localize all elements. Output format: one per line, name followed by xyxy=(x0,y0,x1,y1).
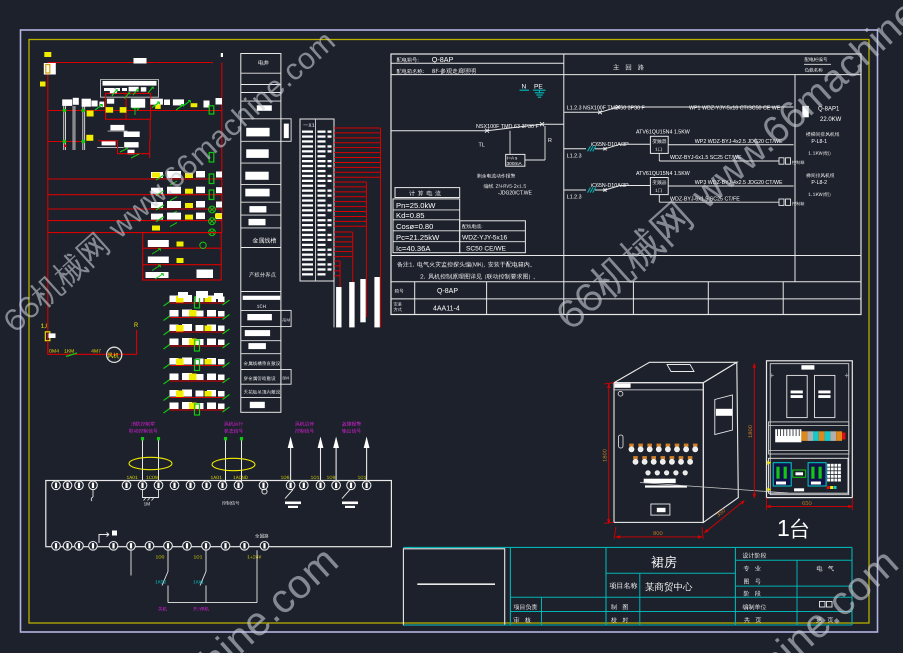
breaker unit B front xyxy=(808,463,826,486)
calc current box xyxy=(395,188,460,198)
cabinet handle slot xyxy=(619,435,624,448)
svg-text:TL: TL xyxy=(479,143,485,149)
start stop sub-circuit wires xyxy=(130,550,132,575)
relay box divider xyxy=(125,93,127,119)
svg-text:L1.2.3: L1.2.3 xyxy=(567,153,582,159)
terminal comb xyxy=(775,429,801,442)
riser table texts xyxy=(258,60,268,65)
legend line sample xyxy=(417,583,495,585)
signal label group 3 magenta xyxy=(295,421,314,426)
svg-text:N: N xyxy=(522,84,527,91)
fan labels yellow xyxy=(49,349,59,353)
front view outer xyxy=(767,361,853,498)
wire top horizontal xyxy=(48,62,213,64)
relay box K1 red outline xyxy=(106,93,151,119)
output labels yellow xyxy=(281,476,289,479)
notes text xyxy=(397,261,532,267)
front view inner xyxy=(770,364,849,495)
distribution sub-panel red box xyxy=(143,233,222,280)
node dot red xyxy=(64,145,66,147)
relay contact marks xyxy=(110,88,117,93)
sub-panel inner rows xyxy=(143,247,222,249)
rows 179-232 components xyxy=(151,172,163,178)
dimension left 1800 xyxy=(608,384,610,523)
motor circles green xyxy=(209,206,216,213)
cabinet indicator lamps xyxy=(629,444,634,447)
cabinet side recess xyxy=(715,395,733,435)
svg-text:SC50 CE/WE: SC50 CE/WE xyxy=(466,246,507,253)
fan circuit aux box xyxy=(49,333,56,338)
output arrows xyxy=(290,448,292,484)
cabinet front label xyxy=(615,384,631,388)
cascade cable labels rotated xyxy=(336,287,341,327)
colored blocks row xyxy=(801,431,807,441)
svg-text:300mA: 300mA xyxy=(507,161,523,167)
cabinet lock xyxy=(618,391,623,396)
svg-text:R: R xyxy=(548,138,552,144)
front view corner marks xyxy=(770,373,774,377)
contact labels cyan xyxy=(155,580,166,583)
riser shaft table xyxy=(241,54,281,413)
svg-text:4AA11-4: 4AA11-4 xyxy=(433,306,460,313)
PLC mid text xyxy=(222,501,239,505)
wire fan circuit xyxy=(48,330,137,354)
PLC right label xyxy=(255,534,269,538)
watermark 4 xyxy=(444,539,903,653)
leader line to front view xyxy=(640,483,788,494)
svg-text:P-L8-1: P-L8-1 xyxy=(811,139,827,145)
svg-text:P-L8-2: P-L8-2 xyxy=(811,180,827,186)
bottom table texts xyxy=(395,289,404,293)
wire drop from relay xyxy=(149,119,151,141)
title block bottom line xyxy=(403,624,852,626)
watermark 1 xyxy=(0,24,342,338)
title block verticals xyxy=(509,547,511,625)
cabinet 3D top face xyxy=(614,362,737,382)
terminal labels yellow group2 xyxy=(211,476,222,479)
cabinet nameplate xyxy=(651,504,670,515)
dimension diagonal 350 xyxy=(705,501,744,533)
yellow wedge marks xyxy=(767,461,771,492)
svg-text:Kd=0.85: Kd=0.85 xyxy=(396,211,425,220)
front view top label xyxy=(801,365,814,369)
main table header lines xyxy=(391,62,564,64)
front view module right xyxy=(815,375,835,417)
svg-text:Ic=40.36A: Ic=40.36A xyxy=(396,244,431,253)
yellow squares rows xyxy=(152,173,160,178)
fuse F1 white xyxy=(44,63,56,75)
dimension 650 front view xyxy=(767,505,853,507)
feeder WP3 with VFD U2 xyxy=(564,171,835,206)
start stop labels magenta xyxy=(158,607,167,612)
CT ellipse group1 xyxy=(129,457,172,469)
header texts xyxy=(397,57,419,62)
sub-panel components xyxy=(148,240,169,247)
PLC U bracket xyxy=(143,490,159,498)
main table outer box xyxy=(391,54,861,315)
riser side cells xyxy=(281,119,291,142)
front view mid band xyxy=(769,422,849,454)
svg-text:L1.2.3: L1.2.3 xyxy=(567,195,582,201)
dimension right 1800 xyxy=(753,364,755,498)
mini color squares xyxy=(827,486,830,489)
watermark 3 xyxy=(0,537,347,653)
green switch fan xyxy=(66,353,77,357)
fuse F1 yellow element xyxy=(46,65,50,74)
main table right column divider xyxy=(794,75,796,282)
svg-text:I=A s: I=A s xyxy=(507,156,518,161)
PLC circle symbol xyxy=(262,489,267,494)
breaker unit A front xyxy=(773,463,791,486)
dimension bottom 800 xyxy=(616,536,702,538)
spare boxes above rows xyxy=(178,292,188,298)
cabinet 3D front face xyxy=(614,383,703,523)
legend box xyxy=(403,549,504,625)
contactor box red outline xyxy=(98,141,150,158)
svg-text:1: 1 xyxy=(777,515,790,541)
label box on top wire xyxy=(134,58,147,64)
front small label xyxy=(794,488,804,491)
cabinet 3D side face xyxy=(703,362,738,522)
wire cascade tiers red xyxy=(334,127,381,129)
green slashes lower xyxy=(120,148,128,152)
meter title bar xyxy=(103,81,157,86)
fuse in fan circuit xyxy=(45,332,50,341)
component boxes mid area xyxy=(110,125,124,130)
wire row horizontal xyxy=(48,208,222,210)
feeder WP2 with VFD U1 xyxy=(564,130,840,165)
level switch symbols xyxy=(285,490,293,499)
RCD labels xyxy=(477,173,515,178)
label 1J xyxy=(41,324,47,329)
cable spec box xyxy=(460,221,526,253)
bottom table lines xyxy=(391,281,861,283)
wire row horizontal xyxy=(48,178,222,180)
svg-text:-JDG20/CT.WE: -JDG20/CT.WE xyxy=(498,191,533,197)
wire CT loop bottom xyxy=(48,141,83,143)
signal label group 1 magenta xyxy=(131,421,155,426)
terminal labels yellow group1 xyxy=(127,476,138,479)
sensor posts group1 xyxy=(141,437,144,440)
component boxes main row xyxy=(62,99,72,106)
svg-text:Pn=25.0kW: Pn=25.0kW xyxy=(396,201,436,210)
svg-text:ATV61QU15N4 1.5KW: ATV61QU15N4 1.5KW xyxy=(636,171,690,177)
bus top tick xyxy=(221,53,223,57)
wire row horizontal xyxy=(48,220,222,222)
fuse green rows xyxy=(209,153,214,163)
branch breaker rows xyxy=(164,295,230,308)
RCD box 300mA xyxy=(506,154,525,166)
terminal J1 yellow xyxy=(44,52,51,57)
CT conductors xyxy=(63,106,65,150)
signal label group 2 magenta xyxy=(224,422,243,427)
wire row horizontal xyxy=(48,194,222,196)
cabinet front seam xyxy=(614,389,703,391)
wire to RCD xyxy=(509,131,511,155)
PLC pin symbol xyxy=(92,490,94,497)
svg-text:ATV61QU15N4 1.5KW: ATV61QU15N4 1.5KW xyxy=(636,130,690,136)
meter sub-box xyxy=(101,80,159,98)
green switch arrows main row xyxy=(95,105,103,111)
terminal matrix front xyxy=(827,464,841,482)
svg-text:Cosø=0.80: Cosø=0.80 xyxy=(396,222,433,231)
svg-text:Q-8AP: Q-8AP xyxy=(432,55,454,64)
PLC bottom labels yellow xyxy=(156,555,164,558)
yellow terminal mid xyxy=(86,135,93,141)
strip right edge extension xyxy=(333,281,335,327)
wire row horizontal xyxy=(48,232,222,234)
svg-text:PE: PE xyxy=(534,84,543,91)
svg-text:Q-8AP: Q-8AP xyxy=(437,288,458,295)
green connector front xyxy=(793,470,806,477)
PLC top terminals xyxy=(52,481,61,490)
ground symbol PE xyxy=(539,90,541,93)
watermark 2 xyxy=(550,0,903,337)
svg-text:WDZ-YJY-5x16: WDZ-YJY-5x16 xyxy=(462,235,508,242)
node dots green xyxy=(63,109,67,113)
signal label group 4 magenta xyxy=(342,422,361,427)
PLC box outline xyxy=(46,481,392,547)
feeder WP1 xyxy=(564,105,842,123)
title texts xyxy=(651,556,676,569)
yellow marks main row xyxy=(87,111,94,117)
fan motor circle xyxy=(107,347,122,362)
cabinet top hatch xyxy=(667,365,694,372)
front view module left xyxy=(787,375,807,417)
main table section divider xyxy=(563,54,565,315)
wire main row horizontal xyxy=(48,110,222,112)
svg-text:Pc=21.25kW: Pc=21.25kW xyxy=(396,233,440,242)
terminal strip X1 xyxy=(300,119,334,281)
fuse green main row xyxy=(209,106,214,114)
wire red bus vertical right xyxy=(221,63,223,233)
title block rows xyxy=(606,572,735,574)
svg-text:22.0KW: 22.0KW xyxy=(820,117,842,123)
label R xyxy=(135,323,138,328)
title block top line xyxy=(403,546,852,548)
cabinet label bar xyxy=(644,479,676,483)
terminal J2 yellow xyxy=(40,82,46,87)
wire red bus vertical left xyxy=(47,63,49,355)
PLC bottom terminals xyxy=(52,542,61,551)
notes separator xyxy=(391,255,861,257)
front view lower band xyxy=(769,458,849,493)
meter text marks xyxy=(104,88,114,91)
sensor posts group2 xyxy=(224,437,227,440)
PLC hook arrow xyxy=(99,533,109,544)
CT ellipse group2 xyxy=(212,458,255,470)
